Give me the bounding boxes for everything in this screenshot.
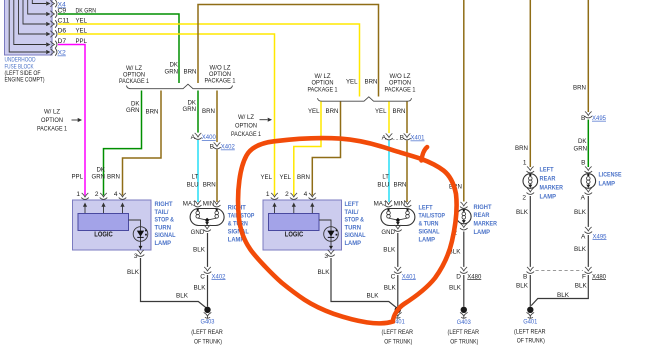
svg-text:BLK: BLK	[318, 269, 330, 276]
svg-text:X401: X401	[402, 273, 416, 280]
svg-text:GRN: GRN	[92, 174, 106, 181]
svg-text:BRN: BRN	[202, 108, 215, 115]
svg-text:LAMP: LAMP	[599, 180, 616, 187]
svg-text:BLU: BLU	[187, 182, 199, 189]
svg-text:W/ LZ: W/ LZ	[238, 114, 254, 121]
connector D X480	[460, 267, 468, 274]
svg-text:X2: X2	[58, 50, 67, 57]
svg-text:3: 3	[324, 253, 328, 260]
fuse block pin C9	[28, 0, 46, 14]
svg-text:C: C	[200, 273, 205, 280]
underhood fuse block	[5, 0, 53, 55]
svg-text:BRN: BRN	[203, 182, 216, 189]
logic box	[263, 200, 342, 250]
svg-text:GRN: GRN	[574, 146, 588, 153]
wire BRN to mid bulb MIN	[406, 141, 408, 203]
svg-text:B: B	[523, 273, 527, 280]
svg-text:X402: X402	[212, 273, 226, 280]
fuse block pin X2	[9, 0, 46, 52]
wire YEL from D6	[58, 34, 275, 196]
fuse block pin X4	[32, 0, 46, 4]
brace left split	[127, 84, 233, 89]
svg-text:OF TRUNK): OF TRUNK)	[450, 339, 478, 346]
logic box	[73, 200, 152, 250]
svg-text:BRN: BRN	[326, 108, 339, 115]
wire BRN top loop	[198, 5, 379, 97]
wire YEL w/ lz to mid logic pin 2	[294, 102, 321, 196]
svg-text:LT: LT	[382, 174, 389, 181]
svg-text:B: B	[400, 135, 404, 142]
connector A X400	[194, 133, 202, 140]
wire BLK from pin 3 to ground	[141, 258, 208, 309]
svg-text:G403: G403	[457, 319, 471, 326]
svg-text:BRN: BRN	[146, 109, 159, 116]
logic pin 4	[119, 193, 127, 200]
svg-text:LEFT: LEFT	[540, 167, 554, 174]
wire PPL from D7	[58, 45, 85, 196]
svg-text:(LEFT REAR: (LEFT REAR	[514, 329, 546, 336]
orange annotation overlap spur	[421, 147, 427, 161]
connector B X401	[403, 133, 411, 140]
svg-text:BRN: BRN	[573, 85, 586, 92]
wire BLK to ground G401	[529, 275, 531, 307]
wire BRN w/o lz to connector X402	[216, 91, 218, 143]
connector A X401	[385, 133, 393, 140]
svg-text:BLK: BLK	[516, 283, 528, 290]
svg-text:TURN: TURN	[155, 224, 172, 231]
logic pin 2	[100, 193, 108, 200]
svg-text:YEL: YEL	[308, 108, 320, 115]
svg-text:1: 1	[76, 191, 80, 198]
svg-text:(LEFT REAR: (LEFT REAR	[382, 329, 414, 336]
ground G403	[204, 307, 212, 319]
connector B X495	[585, 111, 593, 118]
svg-text:LOGIC: LOGIC	[285, 232, 304, 239]
svg-text:LOGIC: LOGIC	[94, 232, 113, 239]
logic inner block	[78, 214, 129, 231]
lamp pins	[460, 202, 468, 209]
svg-text:X495: X495	[593, 233, 607, 240]
connector B X480	[527, 267, 535, 274]
dashed connector line X480	[536, 270, 584, 272]
svg-text:(LEFT REAR: (LEFT REAR	[448, 329, 480, 336]
fuse block pin D7	[14, 0, 46, 45]
svg-text:BLK: BLK	[384, 284, 396, 291]
wire BRN w/ lz to mid logic pin 4	[312, 102, 340, 196]
svg-text:BLK: BLK	[127, 269, 139, 276]
logic inner block	[269, 214, 320, 231]
svg-text:MAJ: MAJ	[183, 200, 196, 207]
svg-text:PACKAGE 1: PACKAGE 1	[205, 78, 236, 85]
ground G401 right	[527, 307, 535, 319]
svg-text:LICENSE: LICENSE	[599, 171, 622, 178]
fuse block pin D6	[19, 0, 47, 34]
svg-text:2: 2	[522, 195, 526, 202]
svg-text:MIN: MIN	[394, 200, 406, 207]
svg-text:OPTION: OPTION	[389, 80, 411, 87]
wire DK GRN to license lamp	[587, 120, 589, 168]
svg-text:GND: GND	[191, 229, 205, 236]
svg-text:OPTION: OPTION	[41, 117, 63, 124]
svg-text:G403: G403	[201, 319, 215, 326]
logic pin 1	[271, 193, 279, 200]
logic pin 3	[327, 250, 335, 257]
svg-text:BLK: BLK	[574, 246, 586, 253]
svg-text:DK: DK	[97, 167, 106, 174]
svg-text:YEL: YEL	[280, 174, 292, 181]
wire YEL from C11	[58, 24, 360, 97]
wire BLK bulb to connector	[397, 233, 399, 267]
svg-text:4: 4	[114, 191, 118, 198]
svg-text:& TURN: & TURN	[419, 221, 439, 228]
svg-text:X495: X495	[592, 115, 606, 122]
wire BLK connector to ground	[207, 275, 209, 307]
wire BRN to left rear marker lamp	[529, 0, 531, 167]
svg-text:BLK: BLK	[449, 284, 461, 291]
connector F X480	[585, 267, 593, 274]
single filament lamp	[457, 209, 472, 224]
connector B X402	[213, 142, 221, 149]
svg-text:LT: LT	[192, 174, 199, 181]
svg-text:REAR: REAR	[540, 176, 556, 183]
svg-text:A: A	[581, 195, 586, 202]
lamp pins	[527, 166, 535, 173]
svg-text:BLK: BLK	[176, 293, 188, 300]
svg-text:PACKAGE 1: PACKAGE 1	[385, 87, 416, 94]
svg-text:BLK: BLK	[367, 293, 379, 300]
svg-text:LAMP: LAMP	[155, 240, 172, 247]
wire LT BLU to left bulb MAJ	[197, 140, 199, 202]
svg-text:TAIL/STOP: TAIL/STOP	[228, 213, 255, 220]
svg-text:BRN: BRN	[107, 174, 120, 181]
wire BRN to license lamp connector	[587, 0, 589, 112]
wire BRN to right rear marker lamp	[463, 0, 465, 202]
svg-text:BRN: BRN	[184, 69, 197, 76]
svg-text:STOP &: STOP &	[345, 217, 365, 224]
svg-text:A: A	[382, 135, 387, 142]
fuse block pin C11	[23, 0, 46, 24]
svg-text:GRN: GRN	[126, 107, 140, 114]
svg-text:GRN: GRN	[183, 106, 197, 113]
connector C X402	[204, 267, 212, 274]
svg-text:LAMP: LAMP	[419, 237, 436, 244]
wire DK GRN from C9	[58, 14, 179, 83]
svg-text:MAJ: MAJ	[374, 200, 387, 207]
svg-text:GND: GND	[381, 229, 395, 236]
svg-text:BRN: BRN	[393, 108, 406, 115]
svg-text:YEL: YEL	[375, 108, 387, 115]
wire BLK marker to connector D X480	[463, 232, 465, 267]
svg-text:BRN: BRN	[297, 174, 310, 181]
svg-text:BLK: BLK	[383, 247, 395, 254]
bulb pins MAJ MIN	[194, 200, 202, 207]
wire BLK bulb to connector	[207, 233, 209, 267]
dual filament bulb	[381, 209, 415, 226]
wire BLK license to ground G401	[531, 275, 588, 306]
svg-text:D: D	[456, 273, 461, 280]
svg-text:OF TRUNK): OF TRUNK)	[517, 338, 545, 345]
svg-text:2: 2	[285, 191, 289, 198]
svg-text:MARKER: MARKER	[474, 221, 498, 228]
svg-text:X402: X402	[221, 144, 235, 151]
svg-text:BRN: BRN	[394, 182, 407, 189]
svg-text:LAMP: LAMP	[540, 194, 557, 201]
svg-text:SIGNAL: SIGNAL	[155, 232, 176, 239]
svg-text:STOP &: STOP &	[155, 217, 175, 224]
wire LT BLU to mid bulb MAJ	[388, 141, 390, 203]
svg-text:BLK: BLK	[194, 284, 206, 291]
svg-text:RIGHT: RIGHT	[155, 201, 173, 208]
wire YEL w/o lz to connector A X401	[388, 102, 390, 134]
brace right split	[318, 97, 412, 101]
svg-text:ENGINE COMPT): ENGINE COMPT)	[5, 77, 45, 84]
svg-text:X480: X480	[592, 273, 606, 280]
logic pin 3	[137, 250, 145, 257]
bulb GND pin	[394, 225, 402, 232]
svg-text:PACKAGE 1: PACKAGE 1	[119, 78, 149, 85]
svg-text:MIN: MIN	[203, 200, 215, 207]
svg-text:PACKAGE 1: PACKAGE 1	[308, 87, 338, 94]
single filament lamp	[581, 174, 596, 189]
wire BLK to ground G403	[463, 275, 465, 307]
svg-text:YEL: YEL	[261, 174, 273, 181]
dual filament bulb	[190, 209, 224, 226]
logic pin 4	[309, 193, 317, 200]
svg-text:TAIL/: TAIL/	[345, 209, 359, 216]
svg-text:GRN: GRN	[165, 69, 179, 76]
svg-text:TURN: TURN	[345, 224, 362, 231]
svg-text:LAMP: LAMP	[474, 229, 491, 236]
svg-text:A: A	[191, 134, 196, 141]
svg-text:SIGNAL: SIGNAL	[345, 232, 366, 239]
svg-text:LAMP: LAMP	[345, 240, 362, 247]
wire DK GRN w/ lz to logic pin 2	[104, 91, 142, 196]
svg-text:YEL: YEL	[346, 79, 358, 86]
lamp pins	[585, 166, 593, 173]
svg-text:X480: X480	[467, 273, 481, 280]
wire BLK marker lamp down	[529, 196, 531, 267]
svg-text:BRN: BRN	[515, 145, 528, 152]
single filament lamp	[523, 174, 538, 189]
svg-text:A: A	[581, 233, 586, 240]
svg-text:RIGHT: RIGHT	[474, 204, 492, 211]
svg-text:PPL: PPL	[72, 174, 84, 181]
wire BLK connector to ground	[397, 275, 399, 307]
diode in logic	[129, 220, 141, 227]
logic pin 2	[290, 193, 298, 200]
svg-text:F: F	[582, 273, 586, 280]
svg-text:BLK: BLK	[575, 283, 587, 290]
svg-text:OPTION: OPTION	[235, 123, 257, 130]
svg-text:X400: X400	[202, 134, 216, 141]
svg-text:REAR: REAR	[474, 212, 490, 219]
svg-text:BRN: BRN	[365, 79, 378, 86]
wire BRN w/ lz to logic pin 4	[123, 91, 162, 196]
svg-text:B: B	[581, 160, 585, 167]
bulb pins MAJ MIN	[385, 200, 393, 207]
orange circle annotation	[238, 138, 457, 323]
svg-text:OPTION: OPTION	[312, 80, 334, 87]
svg-text:PACKAGE 1: PACKAGE 1	[231, 131, 261, 138]
svg-text:OF TRUNK): OF TRUNK)	[384, 339, 412, 346]
svg-text:B: B	[210, 144, 214, 151]
wire BLK to connector F X480	[587, 235, 589, 267]
ground G403 right	[460, 307, 468, 319]
svg-text:C: C	[391, 273, 396, 280]
svg-text:BLK: BLK	[574, 209, 586, 216]
svg-text:SIGNAL: SIGNAL	[419, 229, 440, 236]
svg-text:BLK: BLK	[193, 247, 205, 254]
wire DK GRN w/o lz to connector X400	[197, 91, 199, 133]
bulb GND pin	[203, 225, 211, 232]
svg-text:BLK: BLK	[516, 209, 528, 216]
svg-text:W/ LZ: W/ LZ	[44, 109, 60, 116]
svg-text:X401: X401	[411, 135, 425, 142]
svg-text:MARKER: MARKER	[540, 185, 564, 192]
svg-text:LEFT: LEFT	[419, 205, 433, 212]
svg-text:4: 4	[304, 191, 308, 198]
svg-text:PACKAGE 1: PACKAGE 1	[37, 126, 67, 133]
svg-text:DK: DK	[578, 138, 587, 145]
connector C X401	[394, 267, 402, 274]
wire BLK license lamp down	[587, 196, 589, 227]
svg-text:B: B	[581, 115, 585, 122]
svg-text:G401: G401	[523, 319, 537, 326]
svg-text:BLK: BLK	[557, 292, 569, 299]
connector A X495	[585, 227, 593, 234]
svg-text:1: 1	[523, 160, 527, 167]
logic pin 1	[81, 193, 89, 200]
svg-text:DK: DK	[170, 61, 179, 68]
svg-text:SIGNAL: SIGNAL	[228, 229, 249, 236]
wire BLK from pin 3 to ground	[331, 258, 398, 309]
wire BRN to left bulb MIN	[216, 150, 218, 203]
diode in logic	[319, 220, 331, 227]
wire BRN w/o lz to connector B X401	[406, 102, 408, 134]
svg-text:2: 2	[95, 191, 99, 198]
svg-text:TAIL/STOP: TAIL/STOP	[419, 213, 446, 220]
svg-text:LEFT: LEFT	[345, 201, 359, 208]
ground G401	[394, 307, 402, 319]
svg-text:BLU: BLU	[377, 182, 389, 189]
svg-text:(LEFT REAR: (LEFT REAR	[191, 329, 223, 336]
svg-text:1: 1	[266, 191, 270, 198]
svg-text:3: 3	[134, 253, 138, 260]
svg-text:TAIL/: TAIL/	[155, 209, 169, 216]
svg-text:OF TRUNK): OF TRUNK)	[194, 339, 222, 346]
